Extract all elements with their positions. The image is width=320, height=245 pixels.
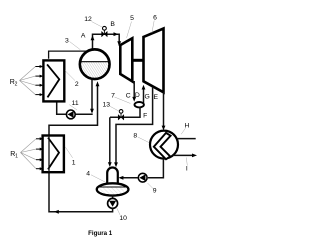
pointer line 2 [65, 71, 75, 81]
pointer line 5 [127, 22, 132, 38]
R2 arrows into evaporator [35, 67, 40, 95]
svg-text:I: I [186, 166, 188, 173]
svg-text:2: 2 [15, 82, 18, 88]
svg-text:11: 11 [72, 100, 79, 107]
deaerator 4 dome [107, 168, 118, 186]
pointer line 9 [148, 183, 154, 189]
R1 fan lines [21, 139, 37, 169]
pointer line 3 [70, 42, 81, 50]
wire E turbine 6 exhaust to condenser [163, 92, 165, 127]
arrow down into condenser [162, 126, 166, 131]
pointer line 8 [138, 137, 149, 143]
arrow up node A [91, 35, 95, 40]
arrow down into deaerator right [114, 162, 118, 167]
heat exchanger 1 (economizer) [43, 136, 64, 173]
svg-text:Figura 1: Figura 1 [88, 230, 113, 237]
turbine 6 [144, 29, 164, 93]
pointer line 7 [115, 97, 131, 104]
arrow up G into turbine 6 [142, 85, 146, 90]
svg-text:2: 2 [75, 81, 79, 88]
pointer line 13 [110, 106, 120, 111]
svg-text:F: F [143, 112, 147, 119]
pointer line H [181, 128, 185, 134]
arrow down into deaerator left [108, 162, 112, 167]
svg-text:7: 7 [111, 92, 115, 99]
heat exchanger 2 (evaporator) [43, 60, 64, 101]
wire pump 10 to economizer (feedwater) [49, 84, 113, 212]
wire turbine 6 extraction to deaerator [116, 87, 153, 164]
svg-text:9: 9 [153, 187, 157, 194]
pointer line 4 [91, 175, 106, 183]
svg-text:A: A [81, 33, 86, 40]
wire condenser drain to pump 9 [148, 159, 163, 178]
wire main steam: drum top to valve B [93, 34, 120, 50]
svg-text:5: 5 [130, 15, 134, 22]
pointer line 11 [69, 105, 77, 110]
pump 11 [66, 110, 75, 119]
wire I cooling out [173, 154, 194, 156]
separator ellipse [135, 102, 144, 107]
svg-text:13: 13 [103, 101, 111, 108]
svg-text:B: B [110, 21, 115, 28]
wire pump 9 to deaerator [120, 177, 138, 179]
arrow down into separator [132, 97, 136, 102]
wire C/D turbine 5 exhaust down to separator [133, 81, 135, 98]
shaft [132, 59, 143, 62]
pump 9 [138, 173, 147, 182]
pointer line 1 [65, 147, 72, 158]
drum 3 (steam drum circle) [80, 49, 110, 80]
wire G separator to turbine 6 [143, 88, 145, 104]
arrow up into drum (feedwater) [96, 81, 100, 86]
pointer line I [186, 158, 187, 166]
wire F separator drain to valve 13 [110, 107, 140, 117]
svg-text:4: 4 [86, 170, 90, 177]
svg-text:1: 1 [15, 154, 18, 160]
pump 10 [108, 198, 118, 208]
svg-text:E: E [154, 94, 159, 101]
turbine 5 [120, 38, 132, 81]
wire drum to evaporator top [49, 51, 87, 59]
arrow right I [192, 154, 197, 158]
arrow down into turbine 5 [117, 41, 121, 46]
svg-text:1: 1 [72, 160, 76, 167]
svg-text:H: H [185, 122, 190, 129]
condenser 8 [150, 131, 178, 160]
wire drum downcomer [91, 80, 93, 113]
svg-text:12: 12 [84, 16, 92, 23]
svg-text:8: 8 [133, 133, 137, 140]
arrow down onto pump 11 line [90, 109, 94, 114]
arrow left into deaerator wall [118, 176, 123, 180]
feed line re-draw over HX1 [48, 136, 50, 173]
arrow left on bottom feed line [54, 210, 59, 214]
svg-text:D: D [135, 92, 140, 99]
svg-text:10: 10 [119, 215, 127, 222]
valve 12 (B) [102, 26, 108, 36]
valve 13 [118, 110, 124, 120]
svg-text:6: 6 [153, 15, 157, 22]
wire evaporator bottom to pump 11 to junction [57, 102, 93, 115]
svg-text:C: C [126, 92, 131, 99]
svg-text:G: G [144, 93, 149, 100]
R1 arrows into economizer [36, 139, 41, 169]
arrow right before turbine inlet [114, 32, 119, 36]
wire tank to pump 10 [112, 195, 114, 199]
svg-text:3: 3 [65, 38, 69, 45]
deaerator tank [96, 183, 129, 196]
pointer line 6 [152, 21, 154, 33]
pointer line 12 [92, 22, 103, 28]
pointer line 10 [116, 207, 120, 215]
wire H cooling in [177, 138, 196, 140]
wire valve 13 down to deaerator [109, 117, 111, 164]
R2 fan lines [20, 67, 36, 95]
